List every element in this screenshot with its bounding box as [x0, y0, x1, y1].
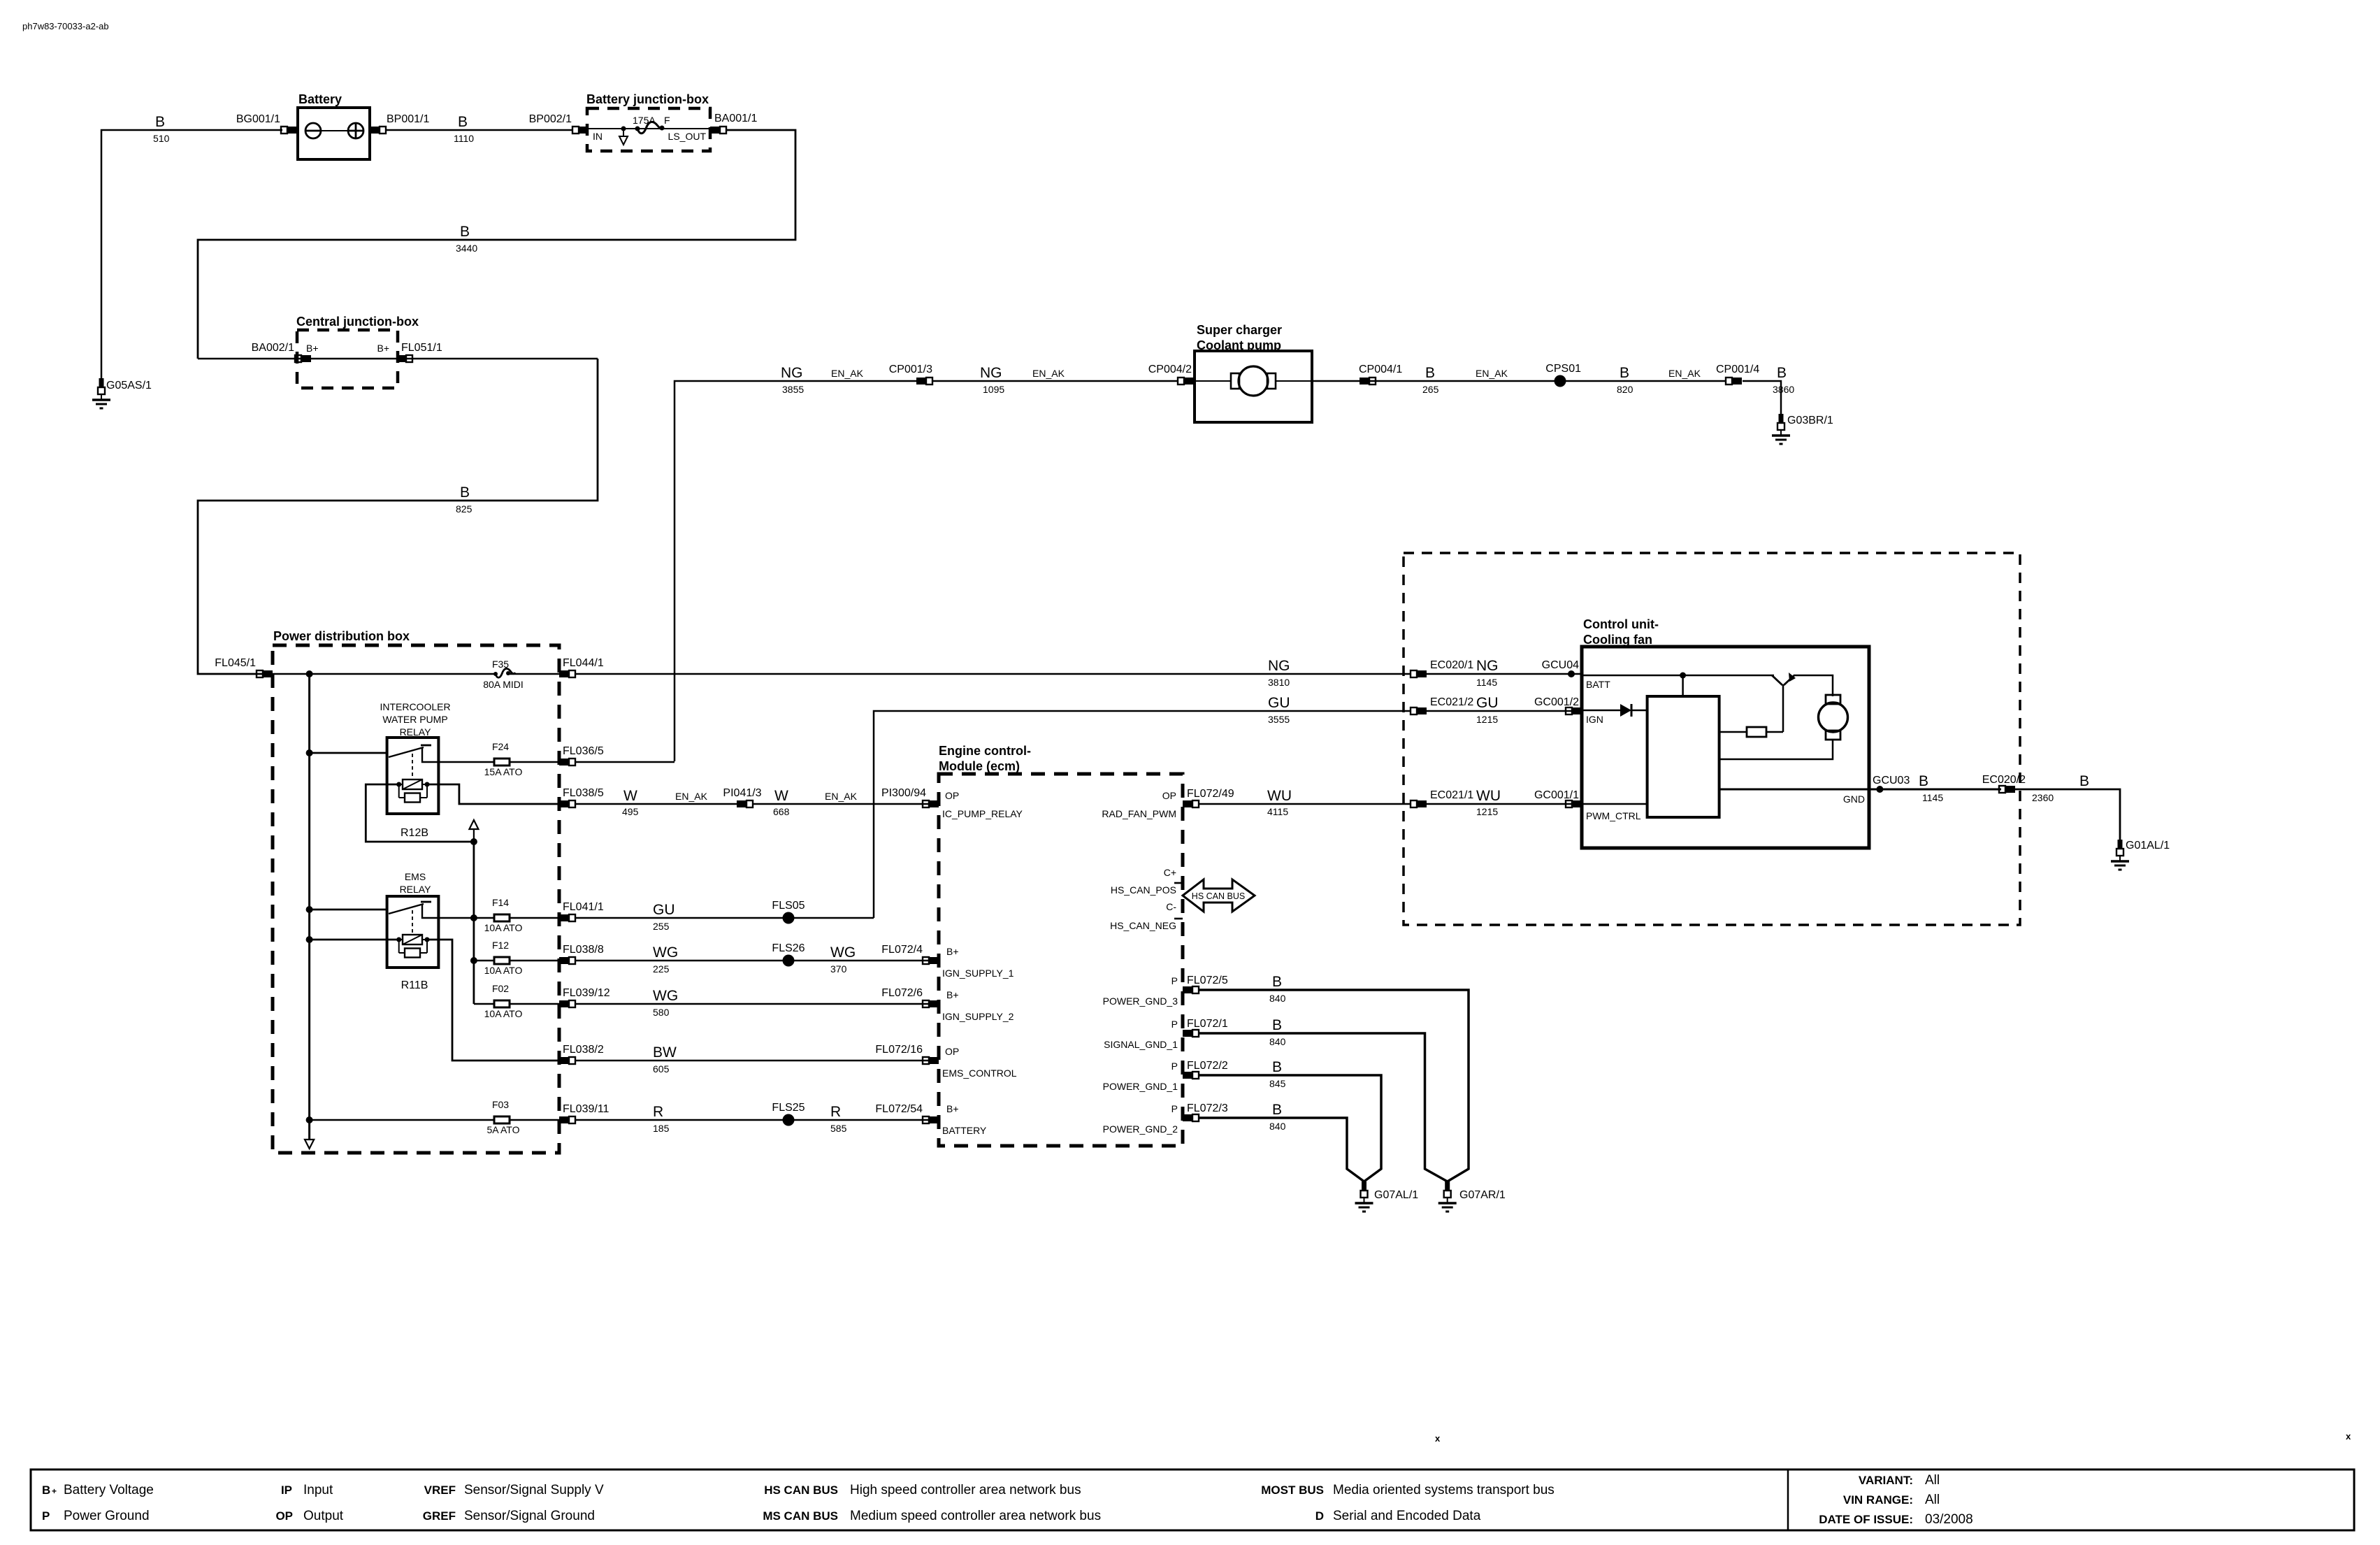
wire motor return: [1719, 740, 1833, 759]
svg-text:OP: OP: [945, 1046, 959, 1057]
svg-text:IGN_SUPPLY_2: IGN_SUPPLY_2: [942, 1011, 1014, 1022]
svg-text:WG: WG: [653, 988, 678, 1004]
legend D: [1315, 1509, 1481, 1523]
svg-text:GCU03: GCU03: [1873, 775, 1910, 786]
relay R12B coil: [396, 779, 429, 789]
fuse label F12 / 10A ATO: [484, 940, 523, 976]
svg-text:OP: OP: [945, 790, 959, 801]
svg-text:G03BR/1: G03BR/1: [1787, 415, 1833, 426]
junction dot F12 row: [470, 957, 477, 964]
svg-text:3555: 3555: [1268, 714, 1290, 725]
svg-text:P: P: [42, 1509, 50, 1523]
svg-text:F14: F14: [492, 897, 509, 908]
svg-text:+: +: [52, 1486, 57, 1496]
svg-text:15A ATO: 15A ATO: [484, 766, 523, 777]
svg-text:FL072/2: FL072/2: [1187, 1060, 1228, 1072]
wire label B 265: [1422, 365, 1439, 395]
wire B 845 row3: [1198, 1075, 1381, 1181]
wire F24 row: [438, 761, 494, 763]
svg-text:Serial and Encoded Data: Serial and Encoded Data: [1333, 1509, 1481, 1523]
svg-text:GC001/2: GC001/2: [1534, 696, 1579, 708]
svg-text:CP001/3: CP001/3: [889, 364, 932, 375]
wire WU 4115: [1198, 803, 1411, 805]
svg-text:POWER_GND_3: POWER_GND_3: [1103, 996, 1178, 1007]
svg-text:IC_PUMP_RELAY: IC_PUMP_RELAY: [942, 808, 1023, 819]
legend GREF: [423, 1509, 595, 1523]
svg-text:Input: Input: [303, 1483, 333, 1497]
junction dot GCU04: [1568, 670, 1575, 677]
connector FL038/5: [559, 800, 575, 807]
wire BATT internal: [1582, 675, 1774, 677]
supercharger row: wire NG segment 1: [675, 381, 916, 761]
svg-text:F: F: [664, 115, 670, 126]
wire label B 3860: [1773, 365, 1794, 395]
wire WU 1215: [1427, 803, 1582, 805]
svg-text:B: B: [2079, 773, 2089, 789]
fuse F 175A (MIDI): [635, 122, 665, 133]
svg-text:FL045/1: FL045/1: [215, 657, 256, 669]
wire GCU04 to box: [1571, 673, 1582, 675]
svg-text:P: P: [1171, 1019, 1178, 1030]
svg-text:Power Ground: Power Ground: [64, 1509, 150, 1523]
wire B 1110: [385, 129, 573, 131]
svg-text:FL039/11: FL039/11: [563, 1103, 610, 1115]
svg-text:WG: WG: [830, 944, 856, 961]
splice FLS25: [783, 1114, 795, 1126]
connector CP001/3: [916, 378, 932, 385]
wire WG 225 / WG 370: [575, 960, 931, 962]
svg-text:F03: F03: [492, 1099, 509, 1110]
wire BW 605: [575, 1060, 931, 1062]
svg-text:CP001/4: CP001/4: [1716, 364, 1759, 375]
junction dot GCU03: [1876, 786, 1883, 793]
svg-text:GU: GU: [1268, 695, 1290, 711]
svg-text:F12: F12: [492, 940, 509, 951]
BJB ground stub arrow: [619, 127, 628, 145]
wire label GU 255: [653, 902, 675, 932]
wire label BW 605: [653, 1044, 677, 1075]
connector CP001/4: [1726, 378, 1742, 385]
connector BA002/1: [295, 355, 311, 362]
bus bottom arrow: [305, 1140, 314, 1149]
svg-text:EN_AK: EN_AK: [1668, 368, 1701, 379]
wire label B 1110: [454, 114, 474, 144]
svg-text:825: 825: [456, 503, 473, 515]
svg-text:FLS25: FLS25: [772, 1102, 805, 1114]
svg-text:FL072/6: FL072/6: [881, 987, 923, 999]
connector FL072/54: [923, 1116, 939, 1123]
connector FL039/11: [559, 1116, 575, 1123]
svg-text:B+: B+: [946, 989, 959, 1000]
legend VIN RANGE: [1843, 1493, 1940, 1507]
connector FL039/12: [559, 1000, 575, 1007]
svg-text:Media oriented systems transpo: Media oriented systems transport bus: [1333, 1483, 1555, 1497]
svg-text:R: R: [830, 1104, 841, 1120]
svg-text:x: x: [1435, 1433, 1441, 1444]
svg-text:NG: NG: [1268, 658, 1290, 674]
relay title INTERCOOLER WATER PUMP RELAY: [380, 701, 450, 738]
wire F14 row: [438, 917, 494, 919]
svg-text:NG: NG: [1476, 658, 1499, 674]
wire F02 row: [474, 1003, 494, 1005]
battery junction-box dashed box: [587, 108, 710, 151]
junction dot R11B coil feed: [306, 936, 313, 943]
super charger coolant pump title: [1197, 323, 1282, 352]
ground G01AL/1: [2111, 840, 2129, 870]
svg-text:IN: IN: [593, 131, 603, 142]
svg-text:x: x: [2346, 1431, 2351, 1442]
svg-text:B: B: [1272, 1017, 1282, 1033]
svg-text:OP: OP: [1162, 790, 1176, 801]
svg-text:VIN RANGE:: VIN RANGE:: [1843, 1493, 1913, 1507]
relay R11B coil: [396, 935, 429, 944]
legend VARIANT: [1859, 1473, 1940, 1488]
svg-text:All: All: [1925, 1473, 1940, 1488]
control unit outer dashed box: [1404, 553, 2020, 925]
svg-text:EC020/1: EC020/1: [1430, 659, 1473, 671]
IC box: [1647, 696, 1719, 817]
legend P Power Ground: [42, 1509, 150, 1523]
svg-text:EN_AK: EN_AK: [1032, 368, 1065, 379]
legend divider: [1787, 1469, 1789, 1530]
connector FL038/8: [559, 957, 575, 964]
svg-text:W: W: [623, 788, 637, 804]
svg-text:G05AS/1: G05AS/1: [106, 380, 152, 391]
svg-text:WU: WU: [1267, 788, 1292, 804]
svg-text:BA001/1: BA001/1: [714, 113, 757, 124]
wire label NG 1095: [980, 365, 1004, 395]
svg-text:10A ATO: 10A ATO: [484, 965, 523, 976]
svg-text:B: B: [460, 484, 470, 501]
svg-text:FL072/1: FL072/1: [1187, 1018, 1228, 1030]
connector FL051/1: [396, 355, 412, 362]
svg-text:B: B: [1919, 773, 1928, 789]
wire NG 1095: [932, 380, 1178, 382]
svg-text:PI300/94: PI300/94: [881, 787, 926, 799]
svg-text:CPS01: CPS01: [1545, 363, 1581, 375]
svg-text:PWM_CTRL: PWM_CTRL: [1586, 810, 1641, 821]
svg-text:F02: F02: [492, 983, 509, 994]
svg-text:Central junction-box: Central junction-box: [296, 315, 419, 329]
connector EC020/1: [1411, 670, 1427, 677]
pin tick C-: [1174, 918, 1183, 920]
svg-text:840: 840: [1269, 1036, 1286, 1047]
svg-text:FL039/12: FL039/12: [563, 987, 610, 999]
fuse F12: [494, 957, 510, 964]
svg-text:P: P: [1171, 1061, 1178, 1072]
wire R12B coil left return: [366, 784, 474, 842]
wire label R 185: [653, 1104, 670, 1134]
svg-text:10A ATO: 10A ATO: [484, 1008, 523, 1019]
wire F03 to FL039/11: [510, 1119, 559, 1121]
junction dot F03 row: [306, 1116, 313, 1123]
pin tick C+: [1174, 882, 1183, 884]
junction dot bus top: [306, 670, 313, 677]
svg-text:668: 668: [773, 806, 790, 817]
svg-text:EMS_CONTROL: EMS_CONTROL: [942, 1068, 1017, 1079]
svg-text:3810: 3810: [1268, 677, 1290, 688]
junction dot F14 row: [470, 914, 477, 921]
wire F35 to FL044/1: [509, 673, 559, 675]
connector EC021/1: [1411, 800, 1427, 807]
svg-text:WATER PUMP: WATER PUMP: [382, 714, 447, 725]
ground G07AL/1: [1355, 1181, 1373, 1212]
svg-text:All: All: [1925, 1493, 1940, 1507]
wire B 840 row4: [1198, 1118, 1364, 1181]
svg-text:B: B: [1425, 365, 1435, 381]
svg-text:495: 495: [622, 806, 639, 817]
svg-text:FL051/1: FL051/1: [401, 342, 442, 354]
svg-text:OP: OP: [275, 1509, 293, 1523]
wire BW row from coil: [558, 1060, 561, 1062]
svg-text:GCU04: GCU04: [1542, 659, 1579, 671]
wire GND row: [1719, 789, 2001, 791]
svg-text:FL036/5: FL036/5: [563, 745, 604, 757]
wire label B 510: [153, 114, 170, 144]
svg-text:IGN_SUPPLY_1: IGN_SUPPLY_1: [942, 968, 1014, 979]
svg-text:1110: 1110: [454, 133, 474, 144]
battery minus terminal: [305, 123, 321, 138]
connector PI041/3: [737, 800, 753, 807]
connector FL072/1: [1183, 1030, 1199, 1037]
connector BG001/1: [281, 127, 297, 134]
wire W 495: [575, 803, 737, 805]
super charger coolant pump box: [1195, 351, 1312, 422]
svg-text:B+: B+: [377, 343, 389, 354]
svg-text:1215: 1215: [1476, 806, 1498, 817]
svg-text:R11B: R11B: [401, 979, 428, 991]
legend HS CAN BUS: [764, 1483, 1081, 1497]
svg-text:Super charger: Super charger: [1197, 323, 1282, 337]
svg-text:BP002/1: BP002/1: [529, 113, 572, 125]
svg-text:605: 605: [653, 1063, 670, 1075]
svg-text:Output: Output: [303, 1509, 344, 1523]
connector CP004/1: [1360, 378, 1376, 385]
svg-text:LS_OUT: LS_OUT: [668, 131, 707, 142]
svg-text:255: 255: [653, 921, 670, 932]
svg-text:B: B: [155, 114, 165, 130]
svg-text:CP004/1: CP004/1: [1359, 364, 1402, 375]
wire label B 2360: [2032, 773, 2089, 803]
wire BJB internal: [589, 128, 710, 129]
connector FL041/1: [559, 914, 575, 921]
connector BP002/1: [572, 127, 589, 134]
wire label B 3440: [456, 224, 477, 254]
svg-text:4115: 4115: [1267, 806, 1288, 817]
svg-text:Battery: Battery: [298, 92, 342, 106]
svg-text:1145: 1145: [1476, 677, 1497, 688]
svg-text:510: 510: [153, 133, 170, 144]
wire label NG 3810: [1268, 658, 1290, 688]
fuse label F02 / 10A ATO: [484, 983, 523, 1019]
svg-text:3860: 3860: [1773, 384, 1794, 395]
pump motor symbol: [1195, 366, 1312, 396]
wire label WG 225: [653, 944, 678, 975]
splice FLS26: [783, 955, 795, 967]
svg-text:FL072/4: FL072/4: [881, 944, 923, 956]
junction dot BATT-IC: [1680, 673, 1686, 679]
up arrow above junction: [469, 820, 478, 842]
relay R12B switch: [389, 745, 438, 779]
fuse F24: [494, 759, 510, 766]
svg-text:80A MIDI: 80A MIDI: [483, 679, 524, 690]
connector FL044/1: [559, 670, 575, 677]
svg-text:FLS26: FLS26: [772, 942, 805, 954]
svg-text:POWER_GND_2: POWER_GND_2: [1103, 1123, 1178, 1135]
legend MS CAN BUS: [763, 1509, 1101, 1523]
svg-text:585: 585: [830, 1123, 847, 1134]
EMS relay R11B box: [387, 896, 439, 968]
wire B 3860 to ground: [1743, 381, 1781, 414]
svg-text:GND: GND: [1843, 793, 1865, 805]
wire GU 1215: [1427, 710, 1582, 712]
wire F14 to FL041/1: [510, 917, 559, 919]
svg-text:175A: 175A: [633, 115, 656, 126]
svg-text:P: P: [1171, 1103, 1178, 1114]
wire NG 3810 row to control unit: [575, 673, 1411, 675]
wire WG 580: [575, 1003, 931, 1005]
svg-text:10A ATO: 10A ATO: [484, 922, 523, 933]
svg-text:Battery junction-box: Battery junction-box: [586, 92, 709, 106]
svg-text:INTERCOOLER: INTERCOOLER: [380, 701, 450, 712]
connector EC020/2: [1999, 786, 2015, 793]
wire B 840 row2: [1198, 1033, 1448, 1181]
svg-text:EC021/1: EC021/1: [1430, 789, 1473, 801]
wire F35 row: [273, 673, 494, 675]
svg-text:EN_AK: EN_AK: [1476, 368, 1508, 379]
svg-text:FL038/2: FL038/2: [563, 1044, 604, 1056]
wire B 820: [1560, 380, 1726, 382]
svg-text:IGN: IGN: [1586, 714, 1603, 725]
control unit title Control unit-Cooling fan: [1583, 617, 1659, 647]
svg-text:GU: GU: [1476, 695, 1499, 711]
legend B+ Battery Voltage: [42, 1483, 154, 1497]
svg-text:High speed controller area net: High speed controller area network bus: [850, 1483, 1081, 1497]
svg-text:B: B: [1272, 1102, 1282, 1118]
svg-text:Sensor/Signal Ground: Sensor/Signal Ground: [464, 1509, 595, 1523]
svg-text:R12B: R12B: [401, 827, 428, 839]
connector FL072/2: [1183, 1072, 1199, 1079]
splice FLS05: [783, 912, 795, 924]
svg-text:FL041/1: FL041/1: [563, 901, 604, 913]
wire R 185 / R 585: [575, 1119, 931, 1121]
wire B 510 battery row left: [101, 130, 282, 378]
wire R12B coil right drop: [427, 784, 559, 804]
svg-text:3855: 3855: [782, 384, 804, 395]
battery plus terminal: [348, 123, 363, 138]
svg-text:GREF: GREF: [423, 1509, 456, 1523]
svg-text:845: 845: [1269, 1078, 1286, 1089]
wire BATT to motor corner: [1794, 675, 1833, 696]
svg-text:MOST BUS: MOST BUS: [1261, 1483, 1324, 1497]
connector GC001/2: [1566, 707, 1582, 714]
svg-text:580: 580: [653, 1007, 670, 1018]
svg-text:Battery Voltage: Battery Voltage: [64, 1483, 154, 1497]
svg-text:1095: 1095: [983, 384, 1004, 395]
junction dot R11B input: [306, 906, 313, 913]
wire label B 840 row1: [1269, 974, 1286, 1004]
intercooler water pump relay R12B box: [387, 738, 439, 814]
splice CPS01: [1555, 375, 1566, 387]
fuse F03: [494, 1116, 510, 1123]
vertical wire junction to fuse rows: [473, 842, 475, 1004]
svg-text:HS_CAN_NEG: HS_CAN_NEG: [1110, 920, 1176, 931]
battery box: [298, 108, 370, 159]
svg-text:Sensor/Signal Supply V: Sensor/Signal Supply V: [464, 1483, 604, 1497]
ground G07AR/1: [1438, 1181, 1457, 1212]
wire B 265: [1312, 380, 1560, 382]
power distribution box dashed box: [273, 645, 559, 1153]
wire label B 1145: [1919, 773, 1943, 803]
fuse label F35 / 80A MIDI: [483, 659, 524, 690]
svg-text:RAD_FAN_PWM: RAD_FAN_PWM: [1102, 808, 1176, 819]
svg-text:BA002/1: BA002/1: [252, 342, 294, 354]
svg-text:840: 840: [1269, 993, 1286, 1004]
wire label B 820: [1617, 365, 1633, 395]
connector EC021/2: [1411, 707, 1427, 714]
connector CP004/2: [1178, 378, 1194, 385]
svg-text:EN_AK: EN_AK: [825, 791, 858, 802]
svg-text:HS CAN BUS: HS CAN BUS: [764, 1483, 838, 1497]
svg-text:GU: GU: [653, 902, 675, 918]
svg-text:265: 265: [1422, 384, 1439, 395]
legend VREF: [424, 1483, 604, 1497]
svg-text:03/2008: 03/2008: [1925, 1512, 1973, 1527]
svg-text:VARIANT:: VARIANT:: [1859, 1474, 1913, 1487]
wire label WU 4115: [1267, 788, 1292, 817]
wire R11B coil feed from bus: [310, 939, 399, 941]
legend DATE OF ISSUE: [1819, 1512, 1972, 1527]
svg-text:Cooling fan: Cooling fan: [1583, 633, 1652, 647]
connector GC001/1: [1566, 800, 1582, 807]
svg-text:PI041/3: PI041/3: [723, 787, 761, 799]
svg-text:SIGNAL_GND_1: SIGNAL_GND_1: [1104, 1039, 1178, 1050]
connector FL072/5: [1183, 986, 1199, 993]
svg-text:MS CAN BUS: MS CAN BUS: [763, 1509, 838, 1523]
connector PI300/94: [923, 800, 939, 807]
svg-text:G07AL/1: G07AL/1: [1374, 1189, 1418, 1201]
wire GU riser to EC021/2: [874, 711, 1411, 918]
connector FL036/5: [559, 759, 575, 766]
svg-text:DATE OF ISSUE:: DATE OF ISSUE:: [1819, 1513, 1913, 1526]
wire label GU 1215: [1476, 695, 1499, 725]
connector FL072/6: [923, 1000, 939, 1007]
svg-text:WU: WU: [1476, 788, 1501, 804]
svg-text:EMS: EMS: [405, 871, 426, 882]
fuse F02: [494, 1000, 510, 1007]
fuse F14: [494, 914, 510, 921]
wire label B 840 row2: [1269, 1017, 1286, 1047]
wire F12 to FL038/8: [510, 960, 559, 962]
svg-text:NG: NG: [781, 365, 803, 381]
svg-text:Medium speed controller area n: Medium speed controller area network bus: [850, 1509, 1101, 1523]
svg-text:NG: NG: [980, 365, 1002, 381]
svg-text:HS CAN BUS: HS CAN BUS: [1192, 891, 1245, 901]
wire B 2360 to ground: [2015, 789, 2120, 840]
svg-text:D: D: [1315, 1509, 1324, 1523]
svg-text:FL072/16: FL072/16: [875, 1044, 923, 1056]
svg-text:GC001/1: GC001/1: [1534, 789, 1579, 801]
svg-text:B: B: [42, 1483, 50, 1497]
wire relay R12B input: [310, 752, 387, 754]
svg-text:HS_CAN_POS: HS_CAN_POS: [1111, 884, 1176, 896]
junction dot R12B input: [306, 749, 313, 756]
relay R11B coil resistor: [399, 940, 427, 958]
svg-text:FL072/49: FL072/49: [1187, 788, 1234, 800]
relay R11B switch: [389, 902, 438, 934]
svg-text:5A ATO: 5A ATO: [487, 1124, 520, 1135]
svg-text:370: 370: [830, 963, 847, 975]
